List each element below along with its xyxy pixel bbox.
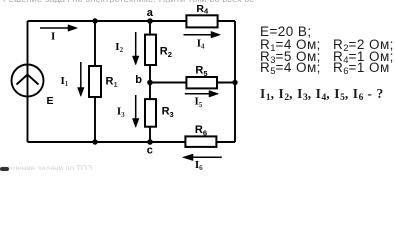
svg-text:a: a	[147, 7, 154, 19]
question line	[260, 86, 384, 103]
node a	[147, 18, 153, 24]
resistor R3	[145, 99, 156, 127]
node b	[147, 80, 153, 86]
svg-text:R2: R2	[160, 45, 172, 59]
svg-text:b: b	[135, 74, 142, 86]
svg-text:I2: I2	[115, 41, 123, 54]
svg-text:R5: R5	[195, 65, 207, 79]
svg-text:I1: I1	[61, 75, 69, 88]
resistor R4	[186, 15, 217, 27]
resistor R6	[185, 136, 216, 147]
svg-text:c: c	[147, 145, 153, 157]
svg-text:R6: R6	[195, 124, 207, 138]
resistor R5	[186, 77, 217, 88]
node junction left-top	[92, 18, 97, 23]
current arrow I2	[132, 32, 139, 65]
current arrow I	[40, 25, 78, 32]
faint cropped text line at very top	[3, 0, 255, 3]
current arrow I4	[184, 31, 221, 38]
resistor R1	[89, 66, 101, 97]
wire left	[27, 21, 29, 142]
wire branch middle a-b-c	[149, 21, 151, 142]
svg-text:I6: I6	[195, 159, 203, 171]
node junction right R5	[232, 80, 237, 85]
node c	[147, 139, 153, 145]
svg-text:I4: I4	[197, 37, 205, 50]
current arrow I6	[183, 154, 222, 161]
svg-text:I5: I5	[195, 96, 203, 109]
faint cropped text at bottom left	[2, 164, 92, 170]
current arrow I3	[132, 95, 139, 128]
svg-text:I3: I3	[117, 106, 125, 119]
svg-text:R1: R1	[106, 76, 118, 90]
voltage source E	[12, 65, 44, 97]
node junction left-bottom	[92, 139, 97, 144]
svg-text:R4: R4	[196, 3, 209, 16]
wire branch R1	[94, 21, 96, 142]
svg-text:I: I	[51, 31, 55, 43]
current arrow I1	[78, 62, 85, 97]
wire right	[234, 21, 236, 142]
wire top	[28, 20, 236, 22]
given data text block	[260, 24, 312, 39]
wire bottom	[28, 141, 236, 143]
wire node b to R5	[150, 82, 235, 84]
svg-text:R3: R3	[162, 106, 174, 120]
resistor R2	[145, 35, 156, 65]
svg-text:E: E	[47, 95, 54, 107]
current arrow I5	[185, 91, 219, 98]
dark cropped mark bottom-left corner	[0, 167, 9, 171]
